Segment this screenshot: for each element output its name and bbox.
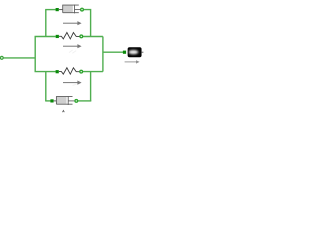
- damper D1 pin circle (flange_b): [81, 8, 84, 11]
- arrow A2: [63, 44, 82, 48]
- wire row2 left: [35, 36, 56, 38]
- arrow A1: [63, 21, 82, 25]
- spring S2 pin square (flange_a): [56, 70, 59, 73]
- wire row3 right: [83, 71, 103, 73]
- wire branch to mass: [103, 51, 123, 53]
- spring S2 zigzag: [59, 68, 80, 74]
- wire row1 right: [84, 10, 91, 37]
- faint parameter label under spring S2: [73, 84, 77, 85]
- mass M1 pin square (flange_a): [123, 51, 126, 54]
- damper D2 rod left stub: [54, 100, 57, 102]
- spring S1 pin circle (flange_b): [80, 35, 83, 38]
- wire stub down-right: [90, 72, 92, 101]
- spring S1 pin square (flange_a): [56, 35, 59, 38]
- wire stub down-left: [45, 72, 47, 101]
- label fragment below damper D2: [63, 111, 65, 113]
- damper D2 body: [56, 96, 74, 105]
- wire stub up-left: [45, 10, 47, 37]
- wire port to left bus: [4, 57, 36, 59]
- wire row1 left: [45, 9, 56, 11]
- wire row4 left: [45, 100, 50, 102]
- wire row3 left: [35, 71, 56, 73]
- damper D2 pin square (flange_a): [50, 99, 53, 102]
- damper D1 body: [63, 5, 81, 14]
- wire right bus vertical: [102, 37, 104, 72]
- spring S2 pin circle (flange_b): [80, 70, 83, 73]
- damper D1 rod left stub: [59, 9, 63, 11]
- wire left bus vertical: [34, 37, 36, 72]
- arrow A3: [63, 81, 82, 85]
- wire row4 right: [78, 100, 91, 102]
- arrow A4: [125, 60, 140, 63]
- mass M1 body: [128, 48, 143, 57]
- damper D2 pin circle (flange_b): [75, 100, 78, 103]
- damper D1 pin square (flange_a): [56, 8, 59, 11]
- background: [0, 0, 145, 113]
- port P1 (left flange connector): [0, 56, 3, 59]
- faint parameter label under spring S1: [69, 50, 76, 53]
- wire row2 right: [83, 36, 103, 38]
- spring S1 zigzag: [59, 33, 80, 39]
